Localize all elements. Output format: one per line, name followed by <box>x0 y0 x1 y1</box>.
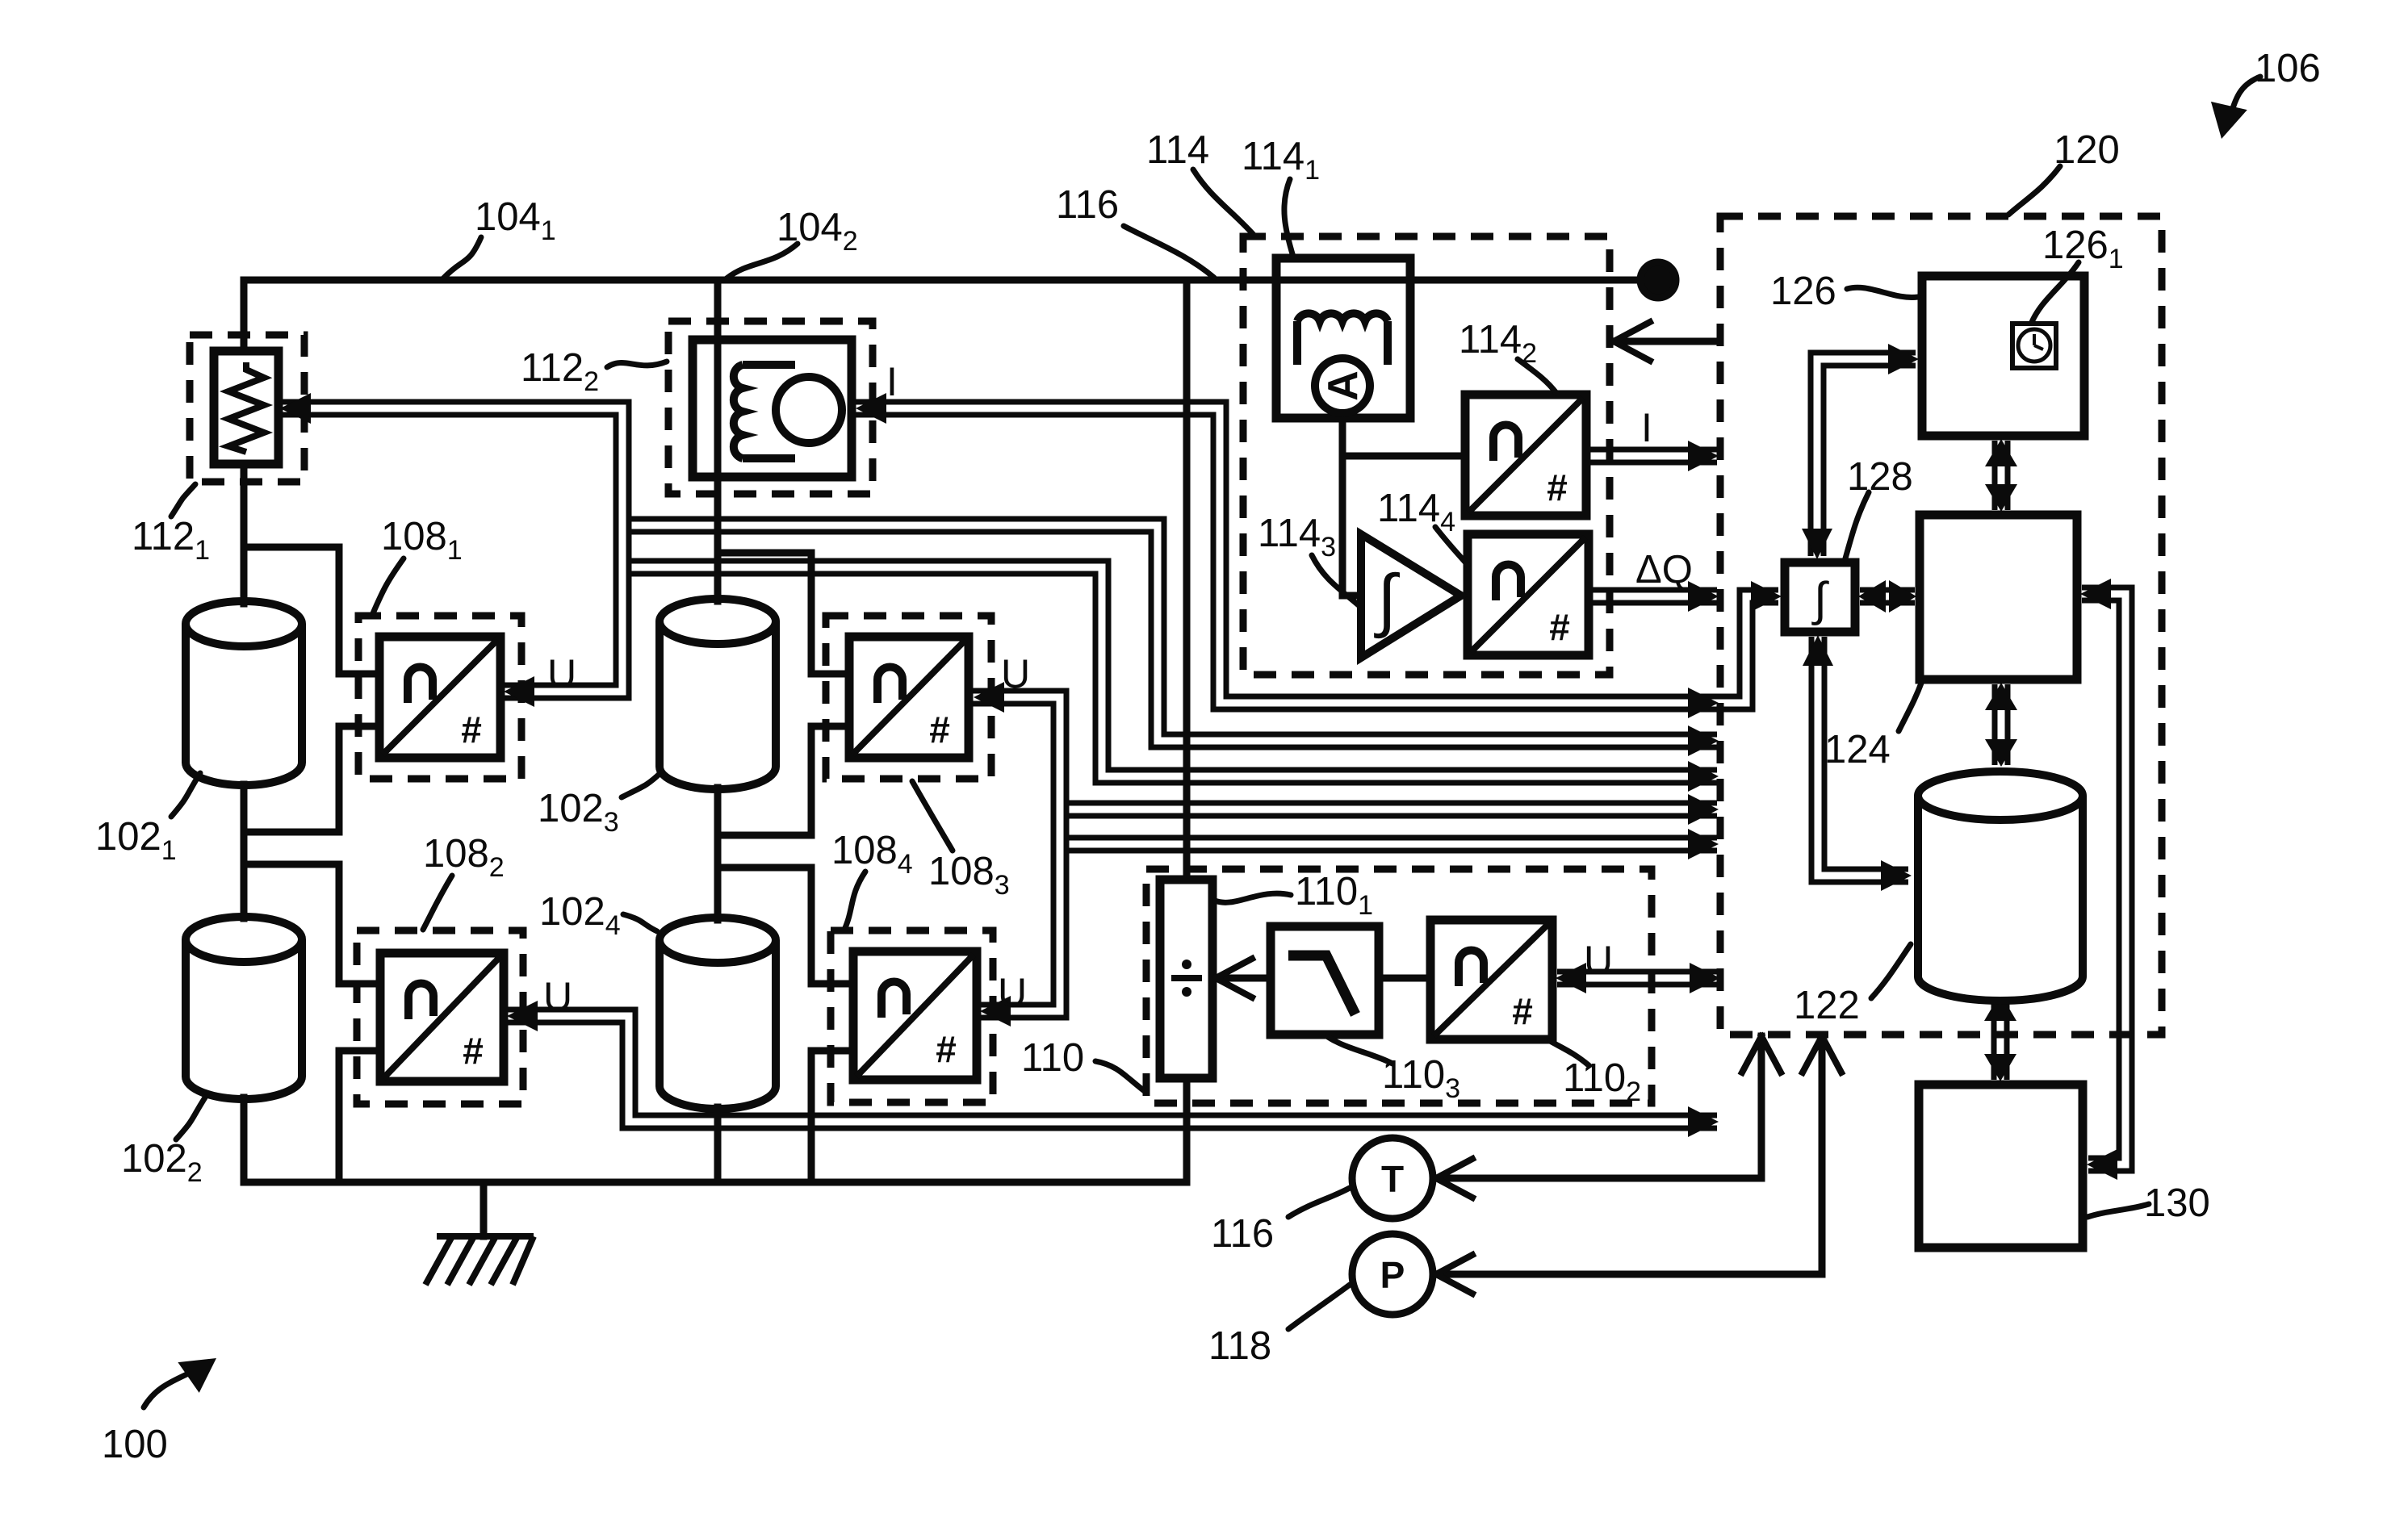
ammeter 114_1 body <box>1276 258 1410 418</box>
arrowhead into 130 top <box>1984 1054 2016 1081</box>
svg-text:110: 110 <box>1021 1036 1084 1080</box>
open arrowhead T line up <box>1742 1036 1781 1073</box>
wire tap mid left string to 108_1 <box>244 726 379 832</box>
A/D converter 114_2 <box>1465 395 1586 516</box>
low-pass filter 110_3 glyph <box>1288 955 1355 1014</box>
wire 126 to 124 bidirectional double-line <box>1992 441 2011 510</box>
arrowhead I wire at 120 edge <box>1688 441 1719 471</box>
wire junction column x=771 continuity <box>614 521 632 573</box>
wire temperature sensor T line <box>1436 1036 1761 1178</box>
node dot on top bus <box>1640 262 1676 298</box>
sensor 112_2 meter circle <box>776 377 842 443</box>
A/D 108_1 diagonal <box>383 640 497 755</box>
arrowhead U into 108_2 <box>507 1001 538 1031</box>
dashed box 114 current measuring unit <box>1243 236 1610 675</box>
leader 124 <box>1899 681 1922 731</box>
block 128 integrator <box>1785 562 1855 632</box>
leader 114_1 <box>1284 179 1293 257</box>
integrator 114_3 triangle <box>1361 534 1461 658</box>
svg-text:I: I <box>1641 405 1652 450</box>
svg-text:#: # <box>929 709 950 751</box>
A/D 110_2 diagonal <box>1434 923 1549 1036</box>
wire junction column x=1313 continuity <box>1051 804 1070 850</box>
A/D 114_2 diagonal <box>1468 398 1583 512</box>
leader 110_3 <box>1328 1037 1392 1064</box>
wire divider to filter link <box>1216 975 1430 982</box>
leader 112_1 <box>171 484 195 516</box>
svg-text:124: 124 <box>1824 728 1891 771</box>
leader 112_2 <box>607 362 667 367</box>
wire 122 to 130 bidirectional double-line <box>1991 995 2010 1080</box>
leader 114_3 <box>1312 555 1359 605</box>
wire tap bottom bus to 108_4 <box>811 1051 853 1182</box>
ammeter 114_1 circle <box>1315 358 1370 413</box>
wire tap above 102_1 to 108_1 <box>244 547 379 674</box>
leader 110 <box>1095 1061 1145 1092</box>
svg-text:100: 100 <box>102 1423 168 1466</box>
wire into integrator 114_3 <box>1342 592 1361 600</box>
wire ammeter to 114_2 <box>1342 453 1465 460</box>
arrowhead into 122 top <box>1985 739 2017 767</box>
battery cell 102_1 cylinder <box>186 624 302 785</box>
clock icon 126_1 <box>2012 324 2056 368</box>
wire middle string x2 lower <box>714 1107 722 1182</box>
database cylinder 122 <box>1918 796 2083 1001</box>
wire 128 to 124 bidirectional double-line <box>1860 587 1915 606</box>
wire bottom bus <box>244 1179 1187 1186</box>
arrowhead sensor wire into 128 <box>1751 581 1782 612</box>
svg-text:U: U <box>543 974 572 1019</box>
leader 102_3 <box>622 773 660 797</box>
resistor 112_1 body <box>214 351 278 464</box>
svg-text:118: 118 <box>1208 1324 1271 1368</box>
leader 102_4 <box>623 914 657 931</box>
wire left string x1 upper <box>241 280 248 351</box>
svg-text:I: I <box>886 359 898 404</box>
dashed box 108_3 <box>826 616 991 779</box>
pressure sensor P circle <box>1352 1234 1433 1315</box>
leader 130 <box>2088 1204 2149 1217</box>
wire 112_2 sensor control double-line <box>854 408 1717 703</box>
wire middle string x2 upper through sensor <box>714 280 722 601</box>
leader 114_2 <box>1518 359 1556 393</box>
A/D 108_3 diagonal <box>852 640 965 755</box>
arrowhead U into 108_1 <box>504 676 534 707</box>
arrowhead 108_2 wire at 120 edge <box>1688 1106 1719 1137</box>
arrowhead into resistor 112_1 <box>280 393 311 424</box>
dashed box 108_1 <box>358 616 521 779</box>
svg-text:∫: ∫ <box>1373 561 1400 639</box>
A/D glyph arch 108_4 <box>882 982 907 1018</box>
wire U measurement 108_4 double-line <box>978 844 1717 1011</box>
arrowhead U wire into 110_2 <box>1556 963 1586 993</box>
arrow squiggle for 106 <box>2230 77 2260 119</box>
wire x3 below divider <box>1183 1078 1191 1182</box>
svg-text:122: 122 <box>1794 984 1860 1027</box>
leader 118 <box>1288 1285 1350 1329</box>
leader 122 <box>1871 944 1911 998</box>
sensor 112_2 coil bracket <box>743 365 795 458</box>
svg-text:U: U <box>998 970 1027 1015</box>
svg-text:106: 106 <box>2255 47 2321 90</box>
dashed box 120 evaluation unit <box>1720 216 2162 1035</box>
arrowhead of 106 squiggle <box>2211 102 2247 139</box>
divider 110_1 glyph <box>1171 975 1202 981</box>
open arrowhead into divider 110_1 <box>1216 959 1252 997</box>
A/D glyph arch 114_4 <box>1496 565 1521 601</box>
leader 102_1 <box>171 773 200 817</box>
arrowhead into 126 left <box>1888 344 1919 374</box>
leader 114 <box>1193 169 1254 235</box>
arrowhead into 128 right <box>1858 580 1886 613</box>
block 130 <box>1919 1085 2083 1248</box>
arrowhead of 100 squiggle <box>178 1358 216 1393</box>
wire tap mid middle string to 108_3 <box>718 726 849 835</box>
A/D glyph arch 108_1 <box>408 667 433 703</box>
arrowhead U wire at 120 edge <box>1690 963 1720 993</box>
svg-text:T: T <box>1381 1158 1404 1200</box>
svg-text:128: 128 <box>1847 455 1913 499</box>
arrow squiggle for 100 <box>144 1368 199 1407</box>
arrowhead into 128 top <box>1802 529 1832 559</box>
arrowhead into 124 bottom <box>1985 683 2017 710</box>
arrowhead resistor wire at 120 edge <box>1688 725 1719 756</box>
leader 110_1 <box>1215 893 1291 902</box>
svg-text:U: U <box>547 651 576 696</box>
svg-text:ΔQ: ΔQ <box>1635 548 1693 592</box>
wire ammeter output vertical <box>1339 418 1346 596</box>
wire control line into 114 <box>1614 338 1720 345</box>
wire U measurement 108_2 double-line <box>505 1016 1717 1122</box>
leader 108_1 <box>373 558 404 613</box>
svg-text:114: 114 <box>1146 128 1209 172</box>
arrowhead into 124 right <box>2080 579 2111 609</box>
open arrowhead P line up <box>1803 1036 1841 1073</box>
leader 120 <box>2008 166 2060 215</box>
svg-text:∫: ∫ <box>1811 573 1829 625</box>
svg-text:#: # <box>936 1028 957 1070</box>
wire 124 to 122 bidirectional double-line <box>1992 684 2011 765</box>
battery cell 102_4 cylinder <box>660 940 776 1109</box>
current sensor 112_2 body <box>693 340 852 477</box>
wire 128 to database 122 double-line <box>1818 637 1908 876</box>
wire left string x1 between cells <box>241 784 248 918</box>
block 126 <box>1922 276 2084 436</box>
svg-text:116: 116 <box>1056 183 1119 227</box>
A/D converter 108_2 <box>380 953 504 1081</box>
battery cell 102_2 cylinder <box>186 939 302 1099</box>
arrowhead into 124 top <box>1985 484 2017 512</box>
svg-text:U: U <box>1584 938 1613 983</box>
ammeter 114_1 coil <box>1297 313 1388 321</box>
arrowhead into 126 bottom <box>1985 439 2017 466</box>
A/D 114_4 diagonal <box>1471 537 1585 652</box>
dashed box 108_4 <box>831 930 993 1102</box>
leader 102_2 <box>176 1098 205 1139</box>
wire 126 to 128 double-line <box>1817 359 1916 556</box>
arrowhead 108_1 wire at 120 edge <box>1688 761 1719 792</box>
arrowhead into 130 right <box>2087 1149 2117 1180</box>
arrowhead into sensor 112_2 <box>856 393 886 424</box>
svg-text:#: # <box>463 1030 484 1072</box>
A/D 108_4 diagonal <box>856 955 974 1077</box>
A/D 108_2 diagonal <box>383 956 500 1078</box>
open arrowhead into T <box>1436 1159 1472 1198</box>
dashed box 108_2 <box>357 930 523 1104</box>
A/D glyph arch 108_3 <box>877 667 902 703</box>
A/D converter 114_4 <box>1468 534 1589 655</box>
leader 108_3 <box>912 781 953 851</box>
svg-text:#: # <box>1512 990 1533 1032</box>
svg-text:#: # <box>1547 466 1568 508</box>
wire tap bottom bus to 108_2 <box>339 1051 380 1182</box>
wire deltaQ output of 114_4 double-line <box>1589 587 1717 606</box>
battery cell 102_3 cylinder <box>660 621 776 789</box>
leader 108_4 <box>844 872 865 930</box>
A/D converter 108_4 <box>853 951 977 1080</box>
block 124 <box>1920 515 2077 679</box>
wire tap mid left string to 108_2 <box>244 864 380 984</box>
wire 112_1 resistor control double-line <box>278 408 1717 741</box>
wire U measurement 108_1 double-line <box>502 567 1717 776</box>
arrowhead 108_4 wire at 120 edge <box>1688 829 1719 859</box>
ammeter 114_1 coil bracket <box>1297 321 1388 365</box>
svg-text:#: # <box>461 709 482 751</box>
svg-text:U: U <box>1001 651 1030 696</box>
arrowhead sensor wire at 120 edge <box>1688 688 1719 718</box>
open arrowhead into P <box>1436 1255 1472 1294</box>
wire left string x1 lower <box>241 1098 248 1182</box>
leader 104_2 <box>727 244 798 278</box>
wire left string x1 resistor to cell 102_1 <box>241 464 248 604</box>
arrowhead into 122 bottom <box>1984 993 2016 1021</box>
wire U measurement 108_3 double-line <box>972 697 1717 809</box>
leader 126_1 <box>2032 262 2079 322</box>
A/D glyph arch 110_2 <box>1459 951 1484 987</box>
dashed box around resistor 112_1 <box>190 335 304 482</box>
arrowhead deltaQ wire at 120 edge <box>1688 581 1719 612</box>
A/D glyph arch 108_2 <box>408 984 433 1020</box>
leader 114_4 <box>1435 527 1468 565</box>
arrowhead U into 108_3 <box>974 682 1004 713</box>
A/D converter 108_3 <box>849 637 969 758</box>
A/D converter 108_1 <box>379 637 500 758</box>
low-pass filter 110_3 <box>1271 926 1379 1035</box>
leader 128 <box>1845 492 1869 558</box>
svg-text:130: 130 <box>2144 1181 2210 1225</box>
leader 104_1 <box>443 237 481 278</box>
wire conductor 116 vertical x3 <box>1183 280 1191 880</box>
dashed box around current sensor 112_2 <box>668 321 873 494</box>
arrowhead into 122 left <box>1881 860 1912 891</box>
open arrowhead into 114 <box>1614 322 1650 361</box>
ground hatching <box>425 1236 534 1285</box>
arrowhead into 124 left <box>1889 580 1916 613</box>
wire ground stem <box>480 1182 488 1236</box>
A/D converter 110_2 <box>1430 920 1552 1039</box>
wire I output of 114_2 double-line <box>1586 447 1717 466</box>
leader 116 top <box>1124 226 1214 278</box>
arrowhead into 128 bottom <box>1803 635 1833 666</box>
wire tap mid middle string to 108_4 <box>718 868 853 984</box>
arrowhead 108_3 wire at 120 edge <box>1688 794 1719 825</box>
svg-text:A: A <box>1320 370 1367 401</box>
sensor 112_2 coil <box>734 365 743 458</box>
leader 116 bottom <box>1288 1188 1350 1217</box>
wire pressure sensor P line <box>1436 1036 1822 1274</box>
A/D glyph arch 114_2 <box>1493 424 1518 461</box>
temperature sensor T circle <box>1352 1138 1433 1219</box>
voltage divider 110_1 <box>1160 880 1212 1078</box>
svg-text:120: 120 <box>2054 128 2120 172</box>
wire sensor line elbow into integrator 128 <box>1717 596 1778 703</box>
svg-text:P: P <box>1380 1254 1405 1296</box>
leader 126 <box>1847 287 1918 297</box>
svg-text:126: 126 <box>1770 270 1836 313</box>
arrowhead U into 108_4 <box>980 996 1011 1027</box>
wire 124 to 130 right-side double-line <box>2082 594 2125 1164</box>
svg-text:#: # <box>1549 606 1570 648</box>
wire tap above 102_3 to 108_3 <box>718 553 849 674</box>
wire top bus 104_1 <box>244 277 1658 284</box>
dashed box 110 voltage divider unit <box>1146 869 1652 1103</box>
wire middle string x2 between cells <box>714 788 722 920</box>
leader 108_2 <box>423 876 452 930</box>
wire U measurement 110_2 bidirectional double-line <box>1557 969 1717 988</box>
svg-text:116: 116 <box>1211 1212 1274 1256</box>
leader 110_2 <box>1550 1041 1589 1065</box>
resistor 112_1 zigzag <box>228 362 264 452</box>
